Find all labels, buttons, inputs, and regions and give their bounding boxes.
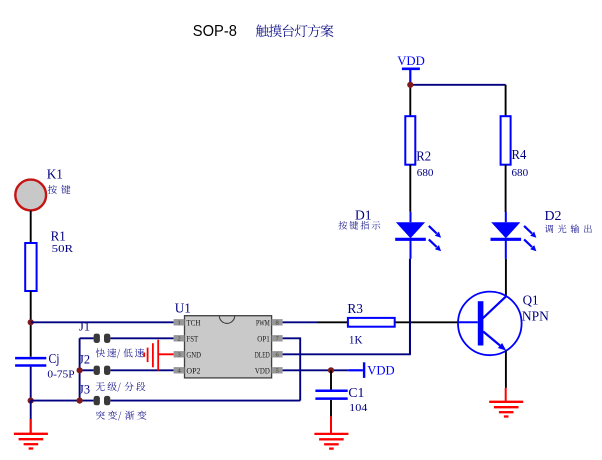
label 调光输出 of D2: [545, 224, 592, 233]
svg-text:1K: 1K: [349, 333, 363, 347]
wire TCH net: [31, 321, 174, 323]
svg-text:VDD: VDD: [255, 366, 270, 376]
label 按键指示 of D1: [338, 221, 380, 230]
resistor R3: [348, 318, 395, 327]
ground (below C1): [314, 434, 348, 449]
wire J1 to FST: [110, 337, 173, 339]
svg-text:R4: R4: [512, 148, 527, 163]
label 按键 of K1: [48, 185, 71, 194]
svg-text:SOP-8: SOP-8: [193, 23, 237, 40]
wire GND pin red: [158, 353, 173, 355]
wire J1 left stub: [80, 337, 94, 339]
wire bottom rail J3 to OP1 corner: [110, 400, 300, 402]
svg-text:J1: J1: [79, 319, 90, 334]
svg-text:680: 680: [417, 167, 434, 179]
resistor R1: [25, 243, 36, 291]
junction jumper bus / J2: [77, 367, 83, 373]
ground (left, below Cj): [14, 434, 48, 449]
wire red stub left ground: [30, 419, 32, 433]
wire VDD pin to C1 node: [283, 369, 349, 371]
svg-text:0-75P: 0-75P: [47, 369, 74, 380]
wire R2 to D1: [409, 165, 411, 212]
ground (below Q1): [489, 402, 523, 417]
label 快速/低速 of J1: [96, 348, 144, 358]
wire DLED to D1 cathode: [283, 259, 410, 354]
wire R4 to D2: [505, 165, 507, 212]
wire red stub C1 ground: [330, 416, 332, 433]
junction K1 column / bottom rail: [28, 398, 34, 404]
svg-text:GND: GND: [186, 350, 201, 360]
power port VDD (top) bar: [402, 68, 420, 71]
svg-text:D1: D1: [355, 208, 372, 223]
wire C1 bottom lead: [330, 400, 332, 417]
svg-text:J3: J3: [79, 382, 90, 397]
svg-text:FST: FST: [186, 334, 198, 344]
wire C1 top lead: [330, 370, 332, 389]
junction at VDD rail: [407, 82, 413, 88]
wire to left ground: [30, 401, 32, 434]
svg-text:680: 680: [512, 167, 529, 179]
wire VDD top horizontal: [410, 84, 505, 86]
wire J2 to OP2: [110, 369, 173, 371]
wire bottom rail left of J3: [31, 400, 94, 402]
svg-text:Q1: Q1: [523, 294, 539, 309]
IC U1 pin names: [186, 318, 270, 376]
resistor R2: [405, 116, 415, 165]
wire Q1 emitter down: [505, 351, 507, 388]
IC U1 pin numbers: [177, 320, 279, 375]
wire J2 left stub: [80, 369, 94, 371]
wire VDD to R4: [505, 85, 507, 116]
wire R3 to Q1 base: [395, 321, 459, 323]
wire R1 to Cj: [30, 291, 32, 357]
capacitor Cj: [15, 357, 46, 360]
svg-text:VDD: VDD: [397, 53, 425, 68]
svg-text:2: 2: [177, 336, 180, 343]
svg-text:8: 8: [275, 320, 278, 327]
label 突变/渐变 of J3: [96, 411, 146, 421]
wire VDD to R2: [409, 85, 411, 116]
svg-text:50R: 50R: [52, 244, 73, 255]
jumper J2: [94, 366, 111, 375]
wire PWM out (navy): [283, 321, 317, 323]
svg-text:TCH: TCH: [186, 318, 200, 328]
svg-text:VDD: VDD: [367, 363, 394, 378]
svg-text:R2: R2: [416, 150, 431, 165]
wire red stub Q1 ground: [505, 388, 507, 401]
svg-text:D2: D2: [545, 209, 562, 224]
svg-text:3: 3: [177, 352, 180, 359]
junction K1 column / TCH wire: [28, 319, 34, 325]
wire D2 cathode to Q1 collector: [505, 259, 507, 296]
LED D2: [491, 212, 537, 259]
jumper J3: [94, 396, 111, 405]
svg-text:OP2: OP2: [186, 366, 200, 376]
wire Cj to bottom rail: [30, 367, 32, 401]
svg-text:PWM: PWM: [256, 318, 270, 328]
svg-text:R1: R1: [51, 230, 66, 245]
junction jumper bus / bottom rail: [77, 398, 83, 404]
wire OP1 to bottom rail: [283, 338, 301, 400]
jumper J1: [94, 334, 111, 343]
transistor Q1: [458, 292, 522, 356]
svg-text:OP1: OP1: [257, 334, 270, 344]
svg-text:DLED: DLED: [255, 350, 270, 360]
wire K1 to R1: [30, 211, 32, 243]
svg-text:NPN: NPN: [522, 310, 549, 325]
svg-text:Cj: Cj: [49, 352, 60, 367]
wire D1 cathode down: [409, 259, 411, 354]
svg-text:U1: U1: [175, 301, 191, 316]
svg-text:R3: R3: [347, 302, 363, 317]
svg-text:K1: K1: [47, 168, 63, 183]
svg-text:J2: J2: [79, 352, 90, 367]
label 无级/分段 of J2: [96, 382, 146, 392]
power port VDD (right): [348, 369, 363, 371]
svg-text:1: 1: [177, 320, 180, 327]
svg-text:C1: C1: [348, 386, 364, 401]
capacitor C1: [315, 390, 347, 393]
wire PWM to R3 (black): [317, 321, 348, 323]
title text 触摸台灯方案: [256, 24, 334, 37]
wire jumper bus vertical: [79, 338, 81, 400]
svg-text:5: 5: [275, 368, 278, 375]
ground (rotated, at U1 GND pin): [144, 340, 158, 371]
IC U1 body: [185, 316, 272, 378]
IC U1 pin pads: [174, 319, 283, 373]
resistor R4: [501, 116, 511, 165]
svg-text:104: 104: [349, 402, 368, 414]
junction VDD pin / C1: [328, 367, 334, 373]
LED D1: [395, 212, 441, 259]
pushbutton K1: [15, 180, 46, 211]
